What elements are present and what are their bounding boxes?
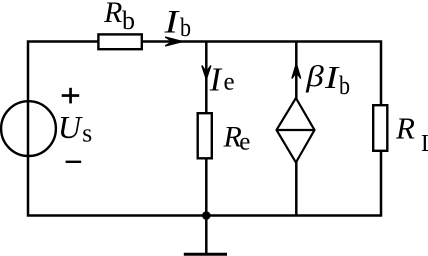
svg-text:R: R xyxy=(103,0,122,29)
svg-text:b: b xyxy=(122,6,135,35)
svg-text:I: I xyxy=(163,4,180,40)
svg-text:L: L xyxy=(421,131,428,157)
svg-text:I: I xyxy=(209,62,223,99)
svg-text:b: b xyxy=(339,71,350,100)
svg-text:R: R xyxy=(395,110,415,145)
svg-text:I: I xyxy=(324,59,340,95)
svg-text:β: β xyxy=(305,60,324,93)
svg-text:s: s xyxy=(82,118,92,147)
svg-text:e: e xyxy=(224,68,235,95)
svg-text:b: b xyxy=(180,13,191,42)
svg-text:e: e xyxy=(239,128,250,155)
svg-text:U: U xyxy=(58,109,83,145)
